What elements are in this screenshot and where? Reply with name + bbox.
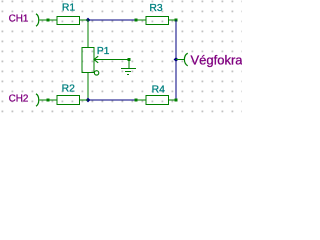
port CH1 arc (36, 14, 39, 26)
resistor R4 (146, 96, 169, 105)
junction dot CH2 wire (46, 98, 49, 101)
svg-text:R2: R2 (62, 84, 76, 95)
svg-text:R1: R1 (62, 3, 76, 14)
resistor R3 (146, 17, 169, 25)
pin R4 right (169, 99, 177, 101)
svg-text:CH1: CH1 (9, 14, 29, 25)
svg-text:R4: R4 (152, 84, 166, 95)
resistor R1 (57, 17, 80, 25)
wire right vertical (175, 20, 177, 100)
wire bottom to R4 (88, 99, 136, 101)
junction dot top right corner (174, 18, 177, 21)
port CH2 arc (36, 94, 39, 106)
wire top to R3 (88, 19, 136, 21)
svg-text:Végfokra: Végfokra (191, 52, 243, 67)
svg-text:P1: P1 (97, 46, 110, 57)
potentiometer P1 circle mark (94, 71, 98, 75)
junction dot CH1 wire (46, 18, 49, 21)
pin R3 right (169, 19, 177, 21)
node junction bottom (R2/R4/P1) (86, 98, 91, 103)
svg-text:R3: R3 (149, 3, 163, 14)
pin R4 left (136, 99, 146, 101)
svg-text:CH2: CH2 (9, 94, 29, 105)
pin P1 top (87, 20, 89, 48)
pin P1 bottom (87, 73, 89, 101)
wire CH1 to R1 (39, 19, 57, 21)
wiper arrow P1 (94, 56, 129, 63)
junction dot bottom right corner (174, 98, 177, 101)
pin R3 left (136, 19, 146, 21)
node junction right (to Vegfokra) (174, 57, 179, 62)
node junction top (R1/R3/P1) (86, 18, 91, 23)
wire to Vegfokra port (176, 59, 184, 61)
potentiometer P1 body (82, 48, 94, 73)
junction dot wiper corner (127, 58, 130, 61)
resistor R2 (57, 96, 80, 105)
junction dot R4 left (134, 98, 137, 101)
ground (121, 60, 136, 75)
pin R2 right (80, 99, 89, 101)
pin R1 right (80, 19, 89, 21)
wire CH2 to R2 (39, 99, 57, 101)
port Vegfokra arc (184, 53, 187, 66)
junction dot R3 left (134, 18, 137, 21)
